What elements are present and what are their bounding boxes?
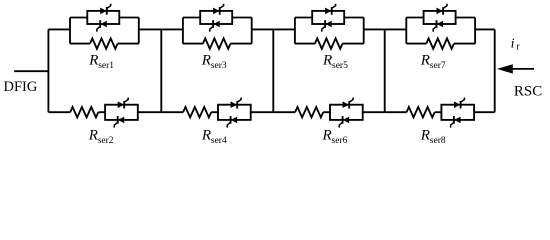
svg-text:ser8: ser8 bbox=[430, 136, 446, 146]
svg-text:ser2: ser2 bbox=[98, 136, 114, 146]
svg-text:R: R bbox=[88, 53, 98, 69]
svg-text:ser5: ser5 bbox=[332, 61, 348, 71]
svg-text:i: i bbox=[511, 37, 515, 52]
svg-text:RSC: RSC bbox=[514, 83, 542, 99]
svg-text:R: R bbox=[420, 127, 430, 143]
svg-text:R: R bbox=[88, 127, 98, 143]
svg-text:ser6: ser6 bbox=[332, 136, 348, 146]
svg-text:R: R bbox=[322, 127, 332, 143]
svg-text:R: R bbox=[322, 53, 332, 69]
svg-text:ser4: ser4 bbox=[211, 136, 227, 146]
svg-text:R: R bbox=[420, 53, 430, 69]
svg-text:R: R bbox=[201, 127, 211, 143]
svg-text:DFIG: DFIG bbox=[4, 79, 38, 95]
svg-text:ser1: ser1 bbox=[98, 61, 114, 71]
svg-text:ser7: ser7 bbox=[430, 61, 446, 71]
svg-text:r: r bbox=[516, 42, 520, 53]
svg-text:ser3: ser3 bbox=[211, 61, 227, 71]
svg-text:R: R bbox=[201, 53, 211, 69]
